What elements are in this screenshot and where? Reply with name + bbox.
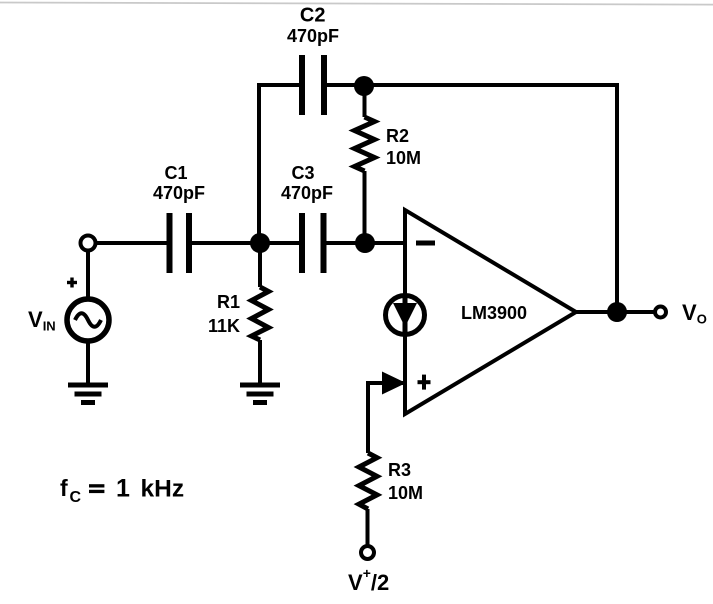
svg-text:10M: 10M (388, 483, 423, 503)
svg-text:470pF: 470pF (153, 183, 205, 203)
svg-text:kHz: kHz (141, 476, 185, 503)
svg-text:LM3900: LM3900 (461, 303, 527, 323)
svg-text:C3: C3 (291, 163, 314, 183)
svg-text:R1: R1 (217, 292, 240, 312)
svg-text:1: 1 (116, 475, 130, 503)
svg-text:470pF: 470pF (281, 183, 333, 203)
svg-text:10M: 10M (386, 148, 421, 168)
svg-text:C1: C1 (164, 163, 187, 183)
svg-text:R3: R3 (388, 460, 411, 480)
svg-text:11K: 11K (208, 316, 240, 336)
svg-text:C2: C2 (300, 5, 326, 27)
svg-text:C: C (70, 489, 82, 506)
svg-text:f: f (60, 475, 68, 501)
svg-text:470pF: 470pF (287, 26, 339, 46)
svg-text:R2: R2 (386, 126, 409, 146)
